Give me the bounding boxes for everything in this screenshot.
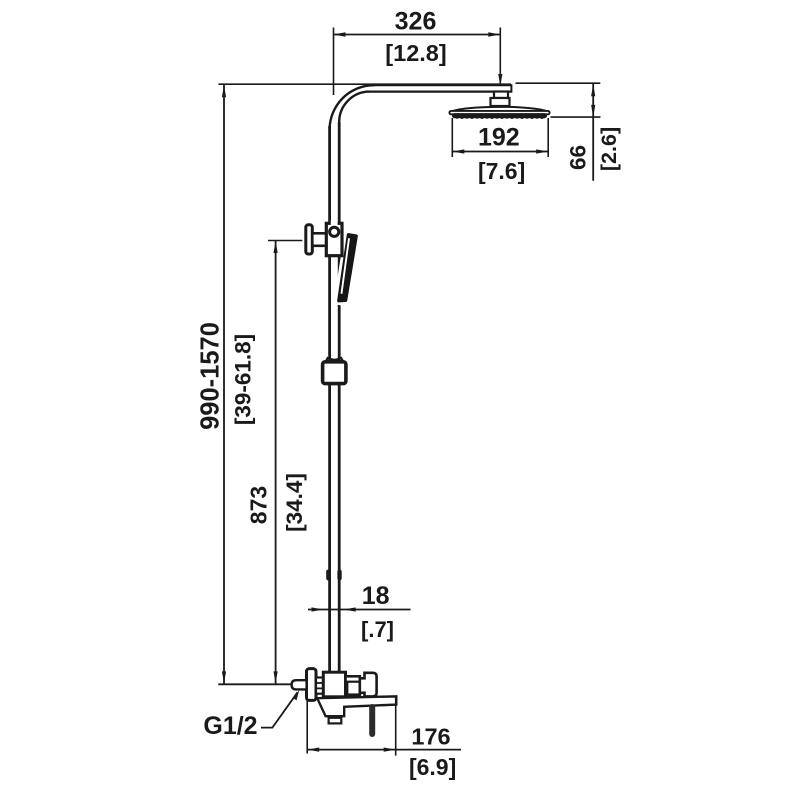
hand shower wand body xyxy=(338,235,356,302)
shower head rim xyxy=(449,111,549,114)
dimension 66 top extension line xyxy=(516,82,601,84)
dimension 176 right extension line xyxy=(395,697,397,756)
shower head dome xyxy=(450,107,550,112)
spout and lever bar outline xyxy=(317,696,396,716)
pipe riser left line xyxy=(328,126,331,672)
hand shower holder knob plate xyxy=(306,225,313,254)
shower head spray face xyxy=(452,113,547,119)
dimension 326 line xyxy=(334,32,501,36)
pipe joint marks at 18 dim xyxy=(326,570,330,581)
dimension 192 right extension line xyxy=(547,118,549,157)
svg-text:176: 176 xyxy=(411,724,450,750)
dimension 326 left extension line xyxy=(333,28,335,96)
svg-text:18: 18 xyxy=(362,582,390,610)
svg-text:[6.9]: [6.9] xyxy=(409,754,456,780)
hand shower wand highlight stripe xyxy=(340,238,350,293)
G1/2 leader line xyxy=(261,690,299,728)
dimension 192 left extension line xyxy=(451,118,453,157)
slider joint taper xyxy=(326,357,343,362)
svg-text:[2.6]: [2.6] xyxy=(597,127,621,171)
dimension 326 right extension line with down arrow xyxy=(498,28,502,87)
valve right section inner box xyxy=(347,682,360,695)
dimension 990-1570 line xyxy=(222,85,226,684)
shower arm curve inner xyxy=(339,92,369,123)
shower arm end edge xyxy=(510,84,512,92)
dimension 873 top extension line xyxy=(268,240,302,242)
lever rod xyxy=(369,707,375,734)
svg-text:326: 326 xyxy=(395,8,437,36)
spout tip xyxy=(329,716,342,723)
svg-text:[7.6]: [7.6] xyxy=(478,158,525,184)
svg-text:990-1570: 990-1570 xyxy=(196,322,224,430)
svg-text:66: 66 xyxy=(566,145,591,170)
shower arm top line xyxy=(372,84,511,86)
dimension 66 line xyxy=(591,84,595,181)
slider block xyxy=(323,362,346,384)
hand shower wand halo xyxy=(333,230,361,307)
svg-text:[.7]: [.7] xyxy=(361,617,394,642)
svg-text:G1/2: G1/2 xyxy=(203,712,257,740)
dimension 18 line xyxy=(308,607,411,611)
shower head connector collar xyxy=(491,98,510,106)
hand shower holder stem xyxy=(312,233,326,246)
top reference line xyxy=(219,83,512,85)
shower head connector stem xyxy=(494,92,508,99)
valve diverter knob xyxy=(360,673,377,697)
svg-text:192: 192 xyxy=(478,123,520,151)
dimension 66 bottom extension line xyxy=(551,116,601,118)
pipe riser right line xyxy=(338,122,341,672)
valve right section xyxy=(346,676,360,695)
dimension 873 line xyxy=(274,241,278,684)
svg-text:[34.4]: [34.4] xyxy=(282,473,307,532)
shower arm curve outer xyxy=(330,85,375,129)
valve main body xyxy=(323,672,345,697)
hand shower holder slot xyxy=(331,220,338,228)
dimension 192 line xyxy=(452,149,548,153)
valve G1/2 nipple xyxy=(292,680,307,689)
hand shower holder pivot ring xyxy=(330,227,339,236)
bottom reference line xyxy=(218,683,292,685)
svg-text:[39-61.8]: [39-61.8] xyxy=(231,334,256,425)
spout tip dark edge xyxy=(328,716,342,719)
dimension 176 left extension line xyxy=(306,701,308,754)
dimension 176 line xyxy=(307,748,461,752)
svg-text:[12.8]: [12.8] xyxy=(385,40,446,66)
svg-text:873: 873 xyxy=(246,486,272,524)
valve threaded joint xyxy=(316,678,323,694)
valve wall flange xyxy=(307,669,317,701)
shower arm bottom line xyxy=(369,90,511,92)
hand shower holder block xyxy=(326,223,342,255)
